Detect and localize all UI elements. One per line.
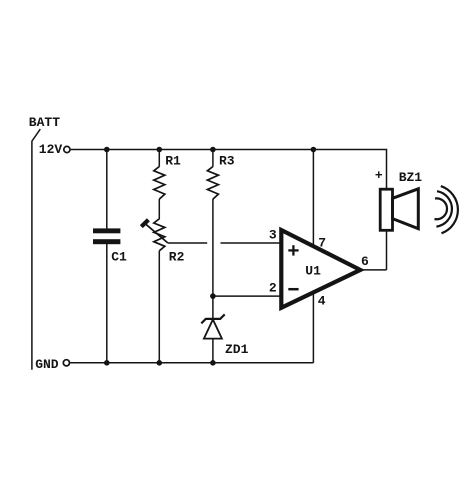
node: junction dot ZD1 bottom [210,360,216,366]
sound wave arc 2 [436,191,452,226]
wire R1 top lead [158,150,160,167]
svg-text:BZ1: BZ1 [399,170,423,185]
wire +12V top rail [71,150,387,190]
wire node to pin 2 [213,295,281,297]
terminal 12V [64,146,70,152]
svg-text:R2: R2 [169,250,185,265]
sound wave arc 3 [441,186,458,233]
battery connector bracket [32,129,40,370]
op-amp plus input mark [288,245,298,255]
svg-text:7: 7 [318,235,326,250]
wire R3 top lead [212,150,214,167]
node: junction dot R3 top [210,147,216,153]
wire ground rail [70,362,313,364]
node: junction dot R1 top [157,147,163,153]
wire buzzer bottom lead [386,230,388,270]
terminal GND [63,360,69,366]
wire R3 bottom lead to node [212,199,214,296]
op-amp U1 [281,230,360,308]
potentiometer R2 [141,219,168,251]
svg-text:12V: 12V [39,142,63,157]
node: junction dot R2 bottom [157,360,163,366]
svg-text:2: 2 [269,281,277,296]
svg-text:U1: U1 [305,263,321,278]
svg-text:+: + [375,168,383,183]
node: junction dot ZD1 / pin 2 [210,293,216,299]
wire pin 7 supply [312,150,314,247]
svg-text:GND: GND [35,357,59,372]
wire ZD1 top lead [212,296,214,319]
wire pin 4 to ground rail [312,293,314,363]
capacitor C1 [93,228,120,244]
wire R2 wiper to pin 3 (right of crossing) [221,242,282,244]
zener diode ZD1 [201,314,224,338]
wire R1 to R2 [158,199,160,219]
svg-text:4: 4 [318,293,326,308]
node: junction dot C1 top [104,147,110,153]
svg-text:ZD1: ZD1 [225,342,249,357]
svg-text:BATT: BATT [29,115,60,130]
node: junction dot C1 bottom [104,360,110,366]
wire C1 top lead [106,150,108,229]
svg-text:R1: R1 [165,154,181,169]
wire R2 bottom lead [158,251,160,363]
svg-text:3: 3 [269,227,277,242]
resistor R3 [207,167,218,200]
wire R2 wiper to pin 3 (left of crossing) [168,242,207,244]
wire ZD1 bottom lead [212,339,214,363]
sound wave arc 1 [435,198,448,219]
op-amp minus input mark [288,288,298,291]
svg-text:6: 6 [361,254,369,269]
wire C1 bottom lead [106,244,108,363]
svg-text:R3: R3 [219,154,235,169]
resistor R1 [154,167,165,200]
svg-text:C1: C1 [111,250,127,265]
node: junction dot pin7 supply [311,147,317,153]
wire pin 6 output [360,269,386,271]
buzzer BZ1 [380,189,418,230]
